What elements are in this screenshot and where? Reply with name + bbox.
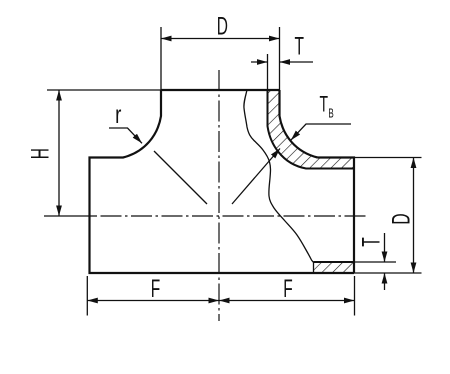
svg-text:r: r bbox=[115, 100, 121, 128]
run bore bottom edge bbox=[314, 261, 355, 263]
svg-text:F: F bbox=[151, 275, 160, 303]
dimension D top: dimension line bbox=[161, 38, 280, 40]
dimension T right: extension line bbox=[354, 261, 396, 263]
svg-text:T: T bbox=[358, 237, 386, 247]
outer crotch curve and branch outer wall bbox=[280, 90, 318, 158]
dimension H: dimension line bbox=[58, 90, 60, 216]
leader r bbox=[109, 128, 142, 143]
dimension T right arrows bbox=[384, 233, 386, 262]
wavy break line bbox=[244, 90, 314, 273]
svg-text:D: D bbox=[388, 213, 416, 224]
dimension D top: extension lines bbox=[160, 27, 162, 90]
top edge extension (left) bbox=[47, 89, 161, 91]
left crotch tangent line bbox=[154, 151, 207, 204]
branch top edge bbox=[161, 89, 280, 91]
svg-text:T: T bbox=[320, 91, 329, 116]
right crotch leader arrow bbox=[232, 149, 280, 205]
svg-text:D: D bbox=[217, 13, 228, 41]
right end face and top run outer edge bbox=[318, 158, 355, 274]
svg-text:H: H bbox=[27, 148, 55, 159]
dimension F: extension lines bbox=[86, 276, 88, 316]
hatched bottom run wall section bbox=[314, 262, 355, 273]
branch inner wall and inner crotch curve, run bore top bbox=[268, 90, 355, 169]
left outline: branch wall, fillet r, shoulder, left end, bottom bbox=[90, 90, 355, 273]
dimension F right bbox=[219, 300, 355, 302]
svg-text:B: B bbox=[328, 106, 333, 120]
hatched branch and top run wall section bbox=[268, 90, 355, 169]
centerline vertical bbox=[218, 70, 220, 321]
dimension D right bbox=[413, 158, 415, 274]
svg-text:T: T bbox=[294, 33, 304, 61]
dimension T top: arrows bbox=[251, 61, 268, 63]
dimension T top: extension line bbox=[267, 54, 269, 90]
leader TB bbox=[291, 124, 351, 140]
dimension F left bbox=[87, 300, 219, 302]
svg-text:F: F bbox=[283, 275, 292, 303]
dimension D right: extension lines bbox=[354, 157, 422, 159]
centerline horizontal bbox=[44, 215, 97, 217]
